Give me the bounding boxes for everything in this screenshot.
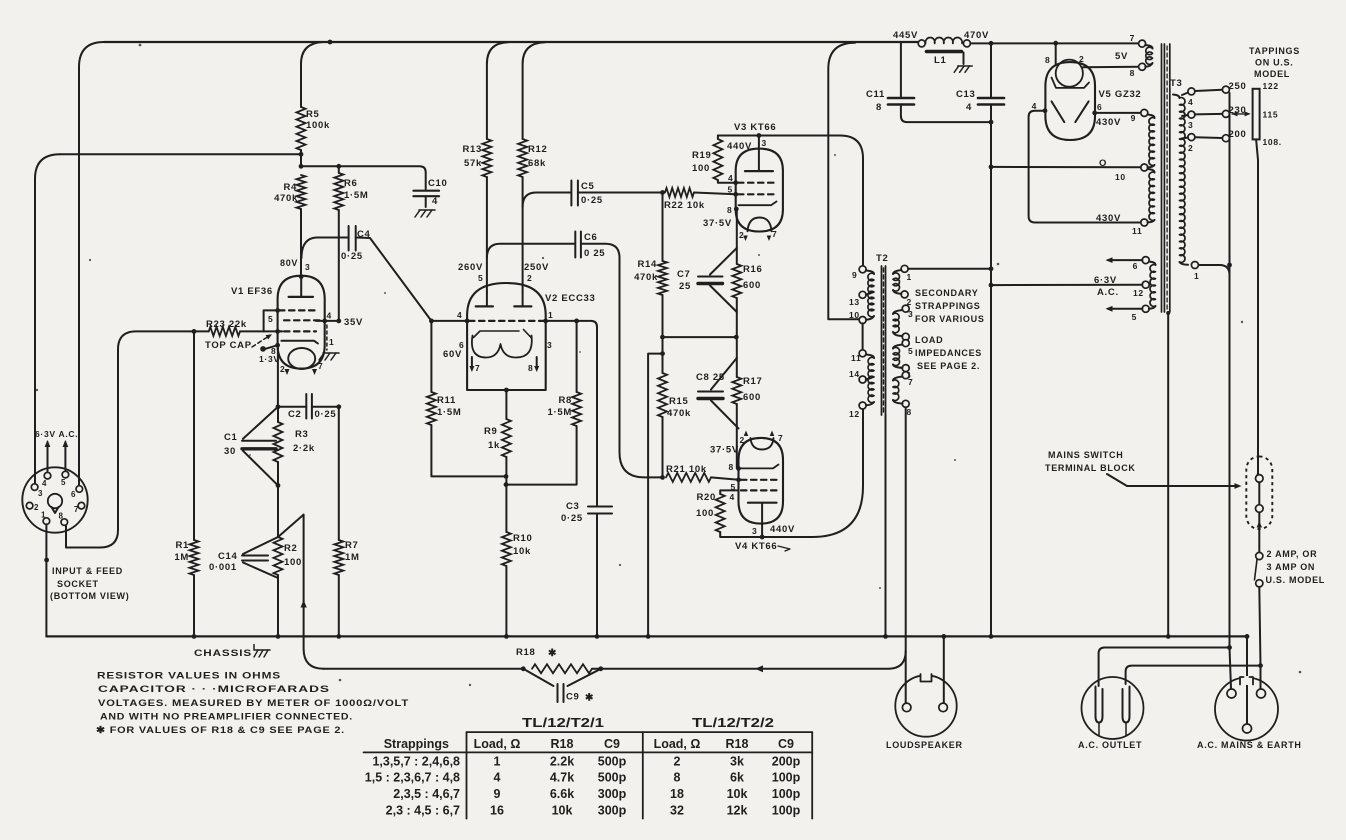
dashed metallising lead pin 1 of V1 bbox=[326, 325, 328, 350]
svg-text:4.7k: 4.7k bbox=[550, 771, 574, 785]
label R21 10k bbox=[666, 464, 707, 475]
wire C5 node down to R14 bbox=[662, 193, 664, 262]
wire C6 down and around to R21 bbox=[581, 244, 665, 480]
svg-text:470k: 470k bbox=[667, 408, 691, 419]
T2 secondary terminal 3 bbox=[902, 305, 913, 319]
svg-text:4: 4 bbox=[966, 102, 972, 113]
svg-text:R5: R5 bbox=[306, 109, 320, 120]
svg-text:3k: 3k bbox=[730, 754, 744, 768]
label 115 bbox=[1263, 110, 1279, 120]
svg-text:3: 3 bbox=[762, 138, 767, 148]
T2 core earth wire bbox=[883, 415, 888, 639]
wire V1 grid to R23 bbox=[240, 330, 282, 332]
label C5 0.25 bbox=[581, 181, 603, 206]
socket pin 2 bbox=[26, 502, 39, 512]
label 5V bbox=[1115, 51, 1128, 62]
svg-text:4: 4 bbox=[730, 492, 735, 502]
svg-text:10k: 10k bbox=[513, 546, 531, 557]
svg-text:470k: 470k bbox=[634, 272, 658, 283]
mains switch terminal block dashed outline bbox=[1246, 456, 1272, 529]
svg-text:R11: R11 bbox=[437, 395, 456, 406]
svg-text:TL/12/T2/2: TL/12/T2/2 bbox=[692, 716, 774, 730]
wire link pins 10-11 of T2 bbox=[862, 323, 864, 349]
ground stub of L1 bbox=[954, 53, 972, 73]
label pin 3 of V2 bbox=[547, 340, 552, 350]
svg-text:250V: 250V bbox=[524, 262, 549, 273]
svg-text:500p: 500p bbox=[598, 771, 627, 785]
svg-text:C2: C2 bbox=[288, 409, 302, 420]
resistor R12 bbox=[518, 139, 527, 177]
T3 6.3V winding bbox=[1149, 262, 1156, 309]
heater arrow from socket pin 5 bbox=[63, 440, 69, 470]
svg-text:C5: C5 bbox=[581, 181, 595, 192]
label R18 star bbox=[516, 647, 557, 659]
capacitor C9 with slants bbox=[523, 669, 601, 702]
svg-text:SEE PAGE 2.: SEE PAGE 2. bbox=[917, 361, 980, 371]
label T3 bbox=[1170, 78, 1183, 89]
label C1 30 bbox=[224, 432, 238, 457]
svg-text:CHASSIS: CHASSIS bbox=[194, 648, 252, 659]
svg-text:12k: 12k bbox=[727, 804, 748, 818]
wire R15 bottom to R21 node bbox=[662, 417, 664, 477]
svg-text:7: 7 bbox=[908, 377, 913, 387]
T2 secondary winding 1-2 bbox=[893, 270, 901, 294]
label C2 bbox=[288, 409, 302, 420]
svg-text:14: 14 bbox=[849, 369, 860, 379]
wire C4 right plate diagonal to V2 grid node bbox=[356, 238, 432, 321]
svg-text:2: 2 bbox=[739, 230, 744, 240]
capacitor C6 bbox=[575, 232, 581, 258]
label pin 5 of V3 bbox=[728, 185, 733, 195]
cathode lobes inside V2 bbox=[472, 336, 532, 358]
svg-text:600: 600 bbox=[743, 392, 761, 403]
svg-text:C13: C13 bbox=[956, 89, 976, 100]
wire V2 pin1 to R8 and C3 bbox=[543, 319, 597, 506]
label pin 5 of V4 bbox=[731, 482, 736, 492]
wire C13 / HT bus down to chassis bbox=[989, 43, 994, 638]
wire R11 bottom to cathode bus bbox=[431, 425, 508, 479]
svg-text:✱: ✱ bbox=[585, 693, 594, 704]
svg-text:R18: R18 bbox=[726, 737, 749, 751]
junction R1 tap on grid wire bbox=[192, 329, 197, 334]
heater arrow pin 7 of V2 bbox=[469, 357, 480, 373]
svg-text:12: 12 bbox=[849, 409, 860, 419]
label pin 2 of V1 with heater arrow bbox=[280, 364, 290, 375]
svg-text:C8 25: C8 25 bbox=[696, 372, 725, 383]
anode left of V5 bbox=[1052, 101, 1065, 122]
label A.C. MAINS & EARTH bbox=[1197, 740, 1302, 750]
svg-text:A.C. MAINS & EARTH: A.C. MAINS & EARTH bbox=[1197, 740, 1302, 750]
svg-text:100: 100 bbox=[692, 163, 710, 174]
svg-text:V2 ECC33: V2 ECC33 bbox=[545, 293, 595, 304]
svg-text:R12: R12 bbox=[528, 144, 548, 155]
feedback line to R18 bbox=[324, 666, 526, 671]
label R12 68k bbox=[528, 144, 548, 169]
resistor R5 bbox=[297, 107, 306, 150]
wire R5 bottom to rail junction bbox=[299, 150, 304, 169]
svg-text:0·25: 0·25 bbox=[581, 195, 603, 206]
wire jog to ground dropper bbox=[646, 354, 663, 639]
svg-text:13: 13 bbox=[849, 297, 860, 307]
wire R19 to V3 screen pin 4 bbox=[718, 180, 738, 185]
AC mains connector outline bbox=[1215, 676, 1278, 741]
wire T3 pin 1 to mains riser bbox=[1198, 265, 1229, 275]
T3 terminal 11 bbox=[1132, 219, 1148, 236]
svg-text:C10: C10 bbox=[428, 178, 448, 189]
label 35V bbox=[344, 317, 363, 328]
svg-text:100: 100 bbox=[284, 557, 302, 568]
svg-text:MAINS SWITCH: MAINS SWITCH bbox=[1048, 450, 1123, 460]
capacitor C2 bbox=[306, 394, 312, 419]
terminal block contact lower bbox=[1256, 505, 1264, 513]
T2 secondary winding 5-6 bbox=[893, 345, 903, 368]
T2 secondary winding 3-4 bbox=[893, 310, 903, 336]
T3 terminal 7 bbox=[1130, 33, 1146, 47]
grid dash row control grid of V1 bbox=[275, 329, 316, 334]
svg-text:300p: 300p bbox=[598, 787, 627, 801]
label 60V bbox=[443, 349, 462, 360]
svg-text:✱ FOR VALUES OF R18 & C9: ✱ FOR VALUES OF R18 & C9 SEE PAGE 2. bbox=[96, 725, 345, 736]
svg-text:1: 1 bbox=[1194, 271, 1199, 281]
label R3 2.2k bbox=[293, 429, 315, 454]
svg-text:3: 3 bbox=[547, 340, 552, 350]
T3 mains terminal 3 bbox=[1188, 111, 1195, 130]
wire R8 bottom to cathode junction bbox=[506, 426, 577, 485]
notes line 2 bbox=[98, 684, 330, 695]
svg-text:4: 4 bbox=[457, 310, 462, 320]
svg-text:C9: C9 bbox=[566, 692, 580, 703]
wire second rail (input screen bus) with rounded corner bbox=[35, 154, 301, 483]
wire R23 to input socket pin 8 (long loop) bbox=[66, 331, 209, 547]
label 37-5V at V4 bbox=[710, 445, 739, 456]
T2 secondary terminal 6 bbox=[902, 365, 911, 380]
svg-text:470V: 470V bbox=[964, 30, 989, 41]
wire R10 to chassis rail bbox=[504, 566, 509, 639]
terminal 470V bbox=[963, 30, 989, 47]
input socket outline bbox=[22, 467, 87, 532]
wire from R5 node to C10 bbox=[301, 166, 426, 189]
svg-text:4: 4 bbox=[494, 771, 501, 785]
capacitor C14 with slanted leads bbox=[242, 537, 278, 578]
AC mains pin earth centre bbox=[1243, 724, 1252, 733]
loudspeaker pin left bbox=[902, 703, 911, 712]
wire R4 bottom to V1 anode pin 3 bbox=[300, 209, 302, 275]
loudspeaker pin right bbox=[939, 703, 948, 712]
wire C11 branch bbox=[900, 43, 902, 97]
svg-text:4: 4 bbox=[432, 196, 438, 207]
svg-text:R18: R18 bbox=[551, 737, 574, 751]
chassis rail wire bbox=[46, 635, 1247, 637]
label V3 KT66 bbox=[734, 122, 776, 133]
svg-text:9: 9 bbox=[1131, 113, 1136, 123]
label 430V upper bbox=[1096, 117, 1121, 128]
feedback wire from R18 line up to V1 cathode with arrow bbox=[278, 515, 324, 669]
screen dash row of V4 bbox=[741, 489, 778, 491]
socket centre keyway bbox=[48, 494, 62, 513]
svg-text:C1: C1 bbox=[224, 432, 238, 443]
wire V5 pin 6 to T3 pin 9 bbox=[1092, 102, 1141, 115]
wire V2 anode pin5 to C6 bbox=[487, 244, 574, 258]
label 260V bbox=[458, 262, 483, 273]
svg-text:R22 10k: R22 10k bbox=[664, 200, 705, 211]
label 122 bbox=[1263, 81, 1279, 91]
wire C5 to R22 bbox=[578, 190, 665, 195]
wire T3 pin 12 to HT bus bbox=[991, 284, 1142, 286]
svg-text:7: 7 bbox=[1130, 33, 1135, 43]
svg-text:R4: R4 bbox=[283, 182, 297, 193]
svg-text:6: 6 bbox=[1097, 102, 1102, 112]
glass nub at top of V4 bbox=[751, 438, 774, 449]
feedback line from R18 to loudspeaker wire bbox=[592, 651, 906, 672]
svg-text:R19: R19 bbox=[692, 150, 712, 161]
wire top rail to R13 bbox=[487, 42, 508, 139]
svg-text:6.6k: 6.6k bbox=[550, 787, 574, 801]
heater arrow from socket pin 4 bbox=[45, 440, 51, 471]
svg-text:1·5M: 1·5M bbox=[344, 190, 368, 201]
svg-text:T3: T3 bbox=[1170, 78, 1183, 89]
label C13 4 bbox=[956, 89, 976, 113]
svg-text:108.: 108. bbox=[1263, 137, 1282, 147]
wire neutral loop to outlet right prong bbox=[1126, 666, 1261, 684]
tube V2 ECC33 envelope bbox=[467, 283, 546, 390]
svg-text:0 25: 0 25 bbox=[584, 248, 605, 259]
svg-text:2: 2 bbox=[527, 273, 532, 283]
svg-text:37·5V: 37·5V bbox=[710, 445, 739, 456]
label R15 470k bbox=[667, 396, 691, 419]
svg-text:8: 8 bbox=[1045, 55, 1050, 65]
svg-text:TAPPINGS: TAPPINGS bbox=[1249, 46, 1300, 56]
svg-text:4: 4 bbox=[1032, 101, 1037, 111]
svg-text:11: 11 bbox=[1132, 226, 1142, 236]
svg-text:25: 25 bbox=[679, 281, 691, 292]
svg-text:RESISTOR VALUES IN OHMS: RESISTOR VALUES IN OHMS bbox=[97, 671, 281, 682]
label C3 0.25 bbox=[561, 501, 583, 524]
svg-text:MODEL: MODEL bbox=[1254, 69, 1290, 79]
wire fuse down to AC mains pin bbox=[1258, 587, 1263, 688]
T2 primary terminal 14 bbox=[849, 369, 866, 383]
svg-text:68k: 68k bbox=[528, 158, 546, 169]
label C11 8 bbox=[866, 89, 885, 113]
capacitor C13 bbox=[978, 98, 1004, 105]
svg-text:SECONDARY: SECONDARY bbox=[915, 288, 978, 298]
svg-text:30: 30 bbox=[224, 446, 236, 457]
svg-text:2·2k: 2·2k bbox=[293, 443, 315, 454]
svg-text:1,5 : 2,3,6,7 : 4,8: 1,5 : 2,3,6,7 : 4,8 bbox=[365, 771, 460, 785]
wire T2 pin 1 to HT smoothing bus bbox=[908, 266, 993, 271]
wire junction to V3 cathode node bbox=[663, 335, 739, 340]
wire socket pin 1 to chassis rail bbox=[44, 524, 49, 636]
svg-text:6: 6 bbox=[71, 490, 76, 499]
resistor R14 bbox=[658, 261, 667, 295]
notes line 3 bbox=[98, 698, 409, 709]
svg-text:4: 4 bbox=[728, 173, 733, 183]
T3 core bbox=[1162, 44, 1170, 312]
label TAPPINGS ON U.S. MODEL bbox=[1249, 46, 1300, 79]
svg-text:7: 7 bbox=[475, 363, 480, 373]
svg-text:7: 7 bbox=[74, 505, 79, 514]
resistor R20 bbox=[716, 490, 762, 537]
wire R7 to chassis rail bbox=[336, 407, 341, 639]
svg-text:37·5V: 37·5V bbox=[703, 218, 732, 229]
svg-text:V1 EF36: V1 EF36 bbox=[231, 286, 273, 297]
resistor R23 bbox=[209, 327, 240, 336]
T3 mains terminal 1 bbox=[1191, 262, 1199, 282]
wire top HT rail with rounded corner into left vertical bus bbox=[79, 42, 918, 485]
leader arrow to terminal block bbox=[1107, 474, 1242, 489]
T2 primary terminal 10 bbox=[849, 310, 866, 324]
label pin 1 of V2 bbox=[548, 310, 553, 320]
label C6 0.25 bbox=[584, 232, 605, 259]
label pin 4 of V1 bbox=[327, 311, 332, 321]
wire C11 bottom tie bbox=[901, 105, 993, 125]
wire 35V anode line from V1 pin 4 bbox=[325, 319, 341, 324]
svg-text:AND WITH NO PREAMPLIFIER C: AND WITH NO PREAMPLIFIER CONNECTED. bbox=[100, 712, 353, 723]
label 6-3V A.C. bbox=[35, 429, 78, 439]
svg-text:R15: R15 bbox=[669, 396, 689, 407]
label R17 600 bbox=[743, 376, 763, 403]
label CHASSIS with symbol bbox=[194, 645, 270, 660]
svg-text:C7: C7 bbox=[677, 269, 691, 280]
svg-text:C3: C3 bbox=[566, 501, 580, 512]
resistor R4 bbox=[297, 175, 306, 209]
socket pin 7 bbox=[74, 502, 85, 514]
svg-text:2,3,5 : 4,6,7: 2,3,5 : 4,6,7 bbox=[393, 787, 460, 801]
svg-text:R9: R9 bbox=[484, 426, 498, 437]
svg-text:Load, Ω: Load, Ω bbox=[474, 737, 521, 751]
T3 terminal 9 bbox=[1131, 109, 1148, 123]
T3 mains terminal 2 bbox=[1188, 134, 1195, 153]
svg-text:8: 8 bbox=[727, 205, 732, 215]
wire V5 pin 2 to T3 pin 8 bbox=[1079, 54, 1139, 67]
socket pin 1 bbox=[41, 511, 50, 525]
svg-text:IMPEDANCES: IMPEDANCES bbox=[915, 348, 982, 358]
wire C3 to chassis rail bbox=[595, 514, 600, 639]
svg-text:3: 3 bbox=[305, 262, 310, 272]
wire V4 anode pin 3 down bbox=[760, 524, 765, 540]
svg-text:600: 600 bbox=[743, 280, 761, 291]
T3 terminal 8 bbox=[1130, 63, 1146, 78]
label C4 0.25 bbox=[341, 229, 371, 262]
tube V1 EF36 envelope bbox=[278, 276, 325, 369]
tube V3 KT66 envelope bbox=[736, 149, 783, 232]
label R5 100k bbox=[306, 109, 330, 131]
svg-text:R17: R17 bbox=[743, 376, 763, 387]
label INPUT & FEED SOCKET (BOTTOM VIEW) bbox=[50, 566, 129, 601]
label R7 1M bbox=[345, 540, 360, 563]
AC mains pin right bbox=[1257, 689, 1266, 698]
label C9 star bbox=[566, 692, 594, 704]
label 8 pin of V1 bbox=[271, 346, 276, 356]
svg-text:0·25: 0·25 bbox=[315, 409, 337, 420]
resistor R6 bbox=[334, 173, 343, 210]
anode bars inside V2 bbox=[476, 292, 532, 306]
fuse blade bbox=[1255, 560, 1258, 580]
svg-text:1: 1 bbox=[329, 337, 334, 347]
label V5 GZ32 bbox=[1099, 89, 1142, 100]
resistor R19 bbox=[713, 136, 722, 181]
svg-text:100p: 100p bbox=[772, 804, 801, 818]
cathode pin 8 of V1 with top-cap stub bbox=[260, 343, 280, 352]
svg-text:100: 100 bbox=[696, 508, 714, 519]
svg-text:10k: 10k bbox=[727, 787, 748, 801]
svg-text:2 AMP, OR: 2 AMP, OR bbox=[1267, 549, 1318, 559]
wire R21 to V4 grid bbox=[711, 477, 741, 482]
wire block to fuse with arrow bbox=[1257, 512, 1262, 552]
svg-text:T2: T2 bbox=[876, 253, 889, 264]
label 250V bbox=[524, 262, 549, 273]
svg-text:2,3 : 4,5 : 6,7: 2,3 : 4,5 : 6,7 bbox=[386, 804, 460, 818]
svg-text:TL/12/T2/1: TL/12/T2/1 bbox=[522, 716, 604, 730]
resistor R10 bbox=[502, 485, 511, 566]
wire g3 strap bracket on V1 bbox=[264, 310, 278, 331]
capacitor C1 with slanted leads bbox=[242, 407, 278, 486]
wire tap 230 with arrow bbox=[1195, 105, 1251, 117]
fuse contact lower bbox=[1256, 580, 1263, 587]
label pin 2 of V4 heater bbox=[740, 431, 749, 446]
T2 secondary terminal 2 bbox=[901, 291, 912, 307]
T3 terminal 10 bbox=[1141, 164, 1148, 171]
svg-text:300p: 300p bbox=[598, 804, 627, 818]
grid dash row of V4 bbox=[741, 479, 778, 481]
svg-text:7: 7 bbox=[778, 433, 783, 443]
svg-text:FOR VARIOUS: FOR VARIOUS bbox=[915, 314, 985, 324]
label R1 1M bbox=[174, 540, 189, 563]
dashed arrow TOP CAP pointing to grid junction bbox=[252, 334, 272, 347]
T3 mains winding bbox=[1173, 95, 1188, 265]
wire V2 pin4 grid to R11 junction bbox=[429, 319, 470, 324]
label pin 5 of V2 bbox=[478, 273, 483, 283]
T3 heater arrow pin 6 bbox=[1106, 257, 1143, 263]
wire V3 cathode down to R16 bbox=[734, 207, 739, 264]
svg-text:4: 4 bbox=[327, 311, 332, 321]
svg-text:0·001: 0·001 bbox=[209, 562, 237, 573]
svg-text:3: 3 bbox=[1188, 120, 1193, 130]
svg-text:C9: C9 bbox=[778, 737, 794, 751]
resistor R8 bbox=[572, 321, 581, 426]
T2 primary terminal 9 bbox=[852, 266, 866, 280]
label MAINS SWITCH TERMINAL BLOCK bbox=[1045, 450, 1136, 473]
svg-text:1: 1 bbox=[548, 310, 553, 320]
loudspeaker connector outline bbox=[895, 674, 956, 737]
wire tap 200 bbox=[1195, 129, 1247, 142]
cathode line of V4 bbox=[741, 465, 779, 469]
label 1.3V bbox=[259, 354, 280, 364]
svg-text:1: 1 bbox=[907, 272, 912, 282]
svg-text:1M: 1M bbox=[345, 552, 360, 563]
svg-text:6·3V A.C.: 6·3V A.C. bbox=[35, 429, 78, 439]
svg-text:8: 8 bbox=[876, 102, 882, 113]
capacitor C5 bbox=[571, 181, 578, 206]
resistor R3 bbox=[274, 407, 283, 462]
grid dash row pin 5 of V1 bbox=[275, 308, 316, 313]
anode of V1 with lead from pin 3 bbox=[289, 274, 313, 297]
svg-text:1·5M: 1·5M bbox=[548, 407, 572, 418]
svg-text:R18: R18 bbox=[516, 647, 536, 658]
capacitor C7 with slants bbox=[698, 248, 737, 312]
svg-text:60V: 60V bbox=[443, 349, 462, 360]
label V1 EF36 bbox=[231, 286, 273, 297]
svg-text:2: 2 bbox=[740, 435, 745, 445]
wire R16 bottom bbox=[736, 298, 738, 377]
svg-text:R10: R10 bbox=[513, 533, 533, 544]
svg-text:200: 200 bbox=[1229, 129, 1247, 140]
capacitor C8 with slants bbox=[698, 358, 739, 428]
choke L1 bbox=[925, 38, 962, 66]
wire HT feed from top rail to T2 centre tap bbox=[828, 43, 859, 320]
svg-text:5: 5 bbox=[908, 346, 913, 356]
AC outlet connector outline bbox=[1082, 677, 1144, 739]
resistor R13 bbox=[482, 139, 491, 177]
